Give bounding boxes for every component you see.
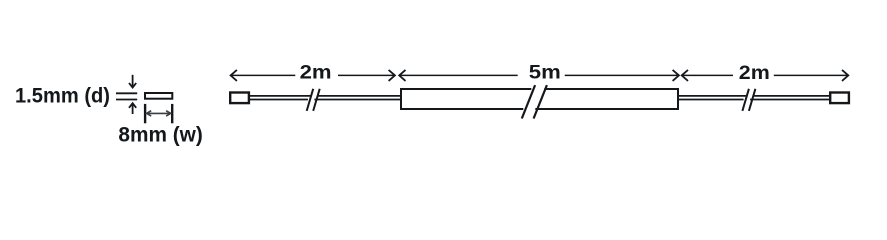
label 1.5mm (d)	[15, 84, 110, 107]
svg-text:8mm (w): 8mm (w)	[118, 123, 202, 146]
left connector plug	[230, 93, 249, 104]
dimension arrow 2m right segment line	[682, 70, 849, 81]
svg-text:2m: 2m	[300, 62, 332, 84]
dimension text 2m right	[739, 62, 770, 84]
left cord wire top line	[249, 95, 401, 97]
LED strip body left part	[401, 89, 531, 109]
thickness arrow up	[129, 103, 136, 114]
right cord wire top line	[678, 95, 830, 97]
strip cross-section rectangle	[145, 93, 172, 99]
left cord break marks	[307, 89, 320, 111]
right cord break marks	[742, 89, 755, 111]
svg-text:1.5mm (d): 1.5mm (d)	[15, 84, 110, 107]
width double arrow	[147, 111, 171, 116]
dimension arrow 5m segment line	[399, 70, 679, 81]
dimension arrow 2m left segment line	[231, 70, 395, 81]
right connector plug	[830, 93, 849, 104]
dimension text 2m left	[300, 62, 332, 84]
width gauge right tick	[171, 104, 173, 123]
label 8mm (w)	[118, 123, 202, 146]
right cord wire bottom line	[678, 99, 830, 101]
thickness arrow down	[129, 75, 136, 88]
LED strip body right part	[535, 89, 678, 109]
dimension text 5m	[529, 62, 561, 84]
left cord wire bottom line	[249, 99, 401, 101]
width gauge left tick	[144, 104, 146, 123]
strip break marks	[522, 85, 547, 118]
svg-text:5m: 5m	[529, 62, 561, 84]
thickness gauge upper line	[116, 92, 137, 94]
thickness gauge lower line	[116, 99, 137, 101]
svg-text:2m: 2m	[739, 62, 770, 84]
